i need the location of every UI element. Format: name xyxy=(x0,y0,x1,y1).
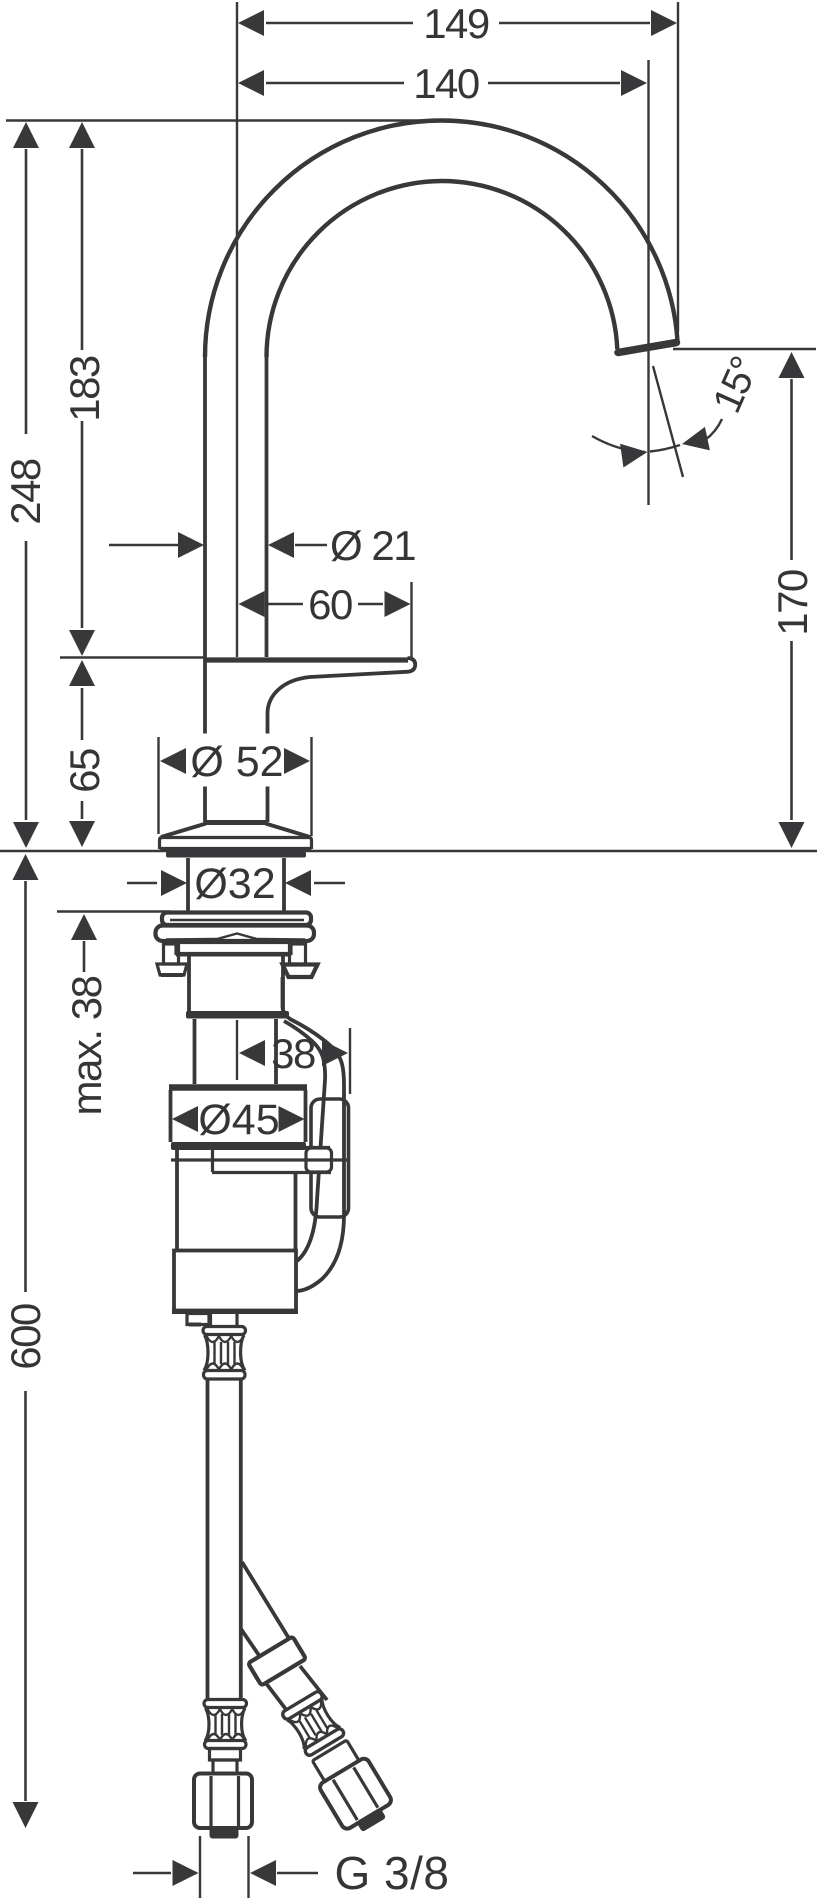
G38 thread stub xyxy=(210,1828,239,1839)
handle top edge xyxy=(204,657,408,662)
dimension d21 line left xyxy=(109,544,178,547)
dimension 170 arrow bottom xyxy=(779,822,805,848)
extension line handle tip xyxy=(410,582,412,660)
svg-text:248: 248 xyxy=(2,459,49,525)
dimension 140 arrow left xyxy=(238,70,264,96)
bracket bottom line xyxy=(212,1171,331,1174)
G38 nut xyxy=(194,1774,252,1829)
G38 nut facet lines xyxy=(209,1776,212,1826)
dimension d21 arrow right xyxy=(268,532,294,558)
angle 15 arc left tail xyxy=(592,436,645,452)
pipe right edge xyxy=(265,357,269,657)
seal bump line xyxy=(166,934,305,940)
diagonal crimp assembly xyxy=(276,1687,398,1839)
bracket shelf line xyxy=(171,1158,348,1161)
crimp1 bars xyxy=(215,1342,235,1364)
diagonal hose upper edge xyxy=(242,1562,293,1645)
dimension 170 label xyxy=(769,570,816,636)
dimension max38 arrow xyxy=(71,914,97,940)
angle 15 arc right tail xyxy=(705,419,722,440)
hose vertical right edge xyxy=(239,1380,243,1700)
crimp2 bottom band xyxy=(205,1741,247,1749)
washer plate xyxy=(162,913,311,926)
left mounting tab xyxy=(164,944,179,964)
body lower bottom edge xyxy=(172,1309,298,1314)
body upper bottom band xyxy=(171,1142,306,1150)
seal capsule xyxy=(156,926,315,942)
flexible hose inner edge xyxy=(284,1021,325,1261)
threaded shank xyxy=(186,858,190,911)
dimension d21 line right xyxy=(295,544,327,547)
base cone right slant xyxy=(266,824,311,838)
dimension 183 line xyxy=(81,149,84,350)
bracket top line xyxy=(212,1146,330,1149)
svg-text:Ø 21: Ø 21 xyxy=(330,522,415,569)
body lower box xyxy=(174,1251,296,1311)
svg-text:Ø32: Ø32 xyxy=(194,860,275,908)
crimp2 bottom scallops xyxy=(208,1734,245,1740)
svg-text:max. 38: max. 38 xyxy=(63,976,110,1115)
svg-text:60: 60 xyxy=(308,581,352,628)
pipe left edge xyxy=(203,357,207,734)
dimension 149 arrow left xyxy=(238,10,264,36)
dimension 38 arrow left xyxy=(239,1040,265,1066)
diagonal nut xyxy=(318,1757,393,1831)
dimension d52 arrow left xyxy=(160,748,186,774)
outlet tab xyxy=(187,1314,209,1325)
dimension 60 line xyxy=(266,603,303,606)
dimension d32 line right xyxy=(314,882,345,885)
crimp2 cage sides xyxy=(205,1708,246,1741)
extension line spout outer reach xyxy=(677,2,679,332)
dimension d32 arrow right xyxy=(285,870,311,896)
spout inner arc xyxy=(267,181,618,357)
datum line spout top xyxy=(6,119,452,122)
dimension d32 arrow left xyxy=(161,870,187,896)
dimension d32 line left xyxy=(127,882,157,885)
dimension 248 arrow top xyxy=(13,122,39,148)
bracket left edge xyxy=(211,1147,214,1172)
spout outer arc xyxy=(205,120,678,357)
left mounting foot xyxy=(157,964,187,975)
dimension max38 extension line xyxy=(57,910,170,912)
svg-text:65: 65 xyxy=(61,749,108,793)
diagonal braid segment xyxy=(262,1666,327,1712)
dimension 65 line xyxy=(81,688,84,740)
spout end face xyxy=(618,343,677,353)
base cone top edge xyxy=(204,820,267,825)
dimension G38 arrow left xyxy=(173,1860,199,1886)
svg-text:140: 140 xyxy=(413,60,479,107)
dimension d52 extension lines xyxy=(157,737,159,834)
angle 15 arrow onto slant line xyxy=(680,427,710,456)
mount tube bottom band xyxy=(186,1011,289,1019)
angle 15 arc middle xyxy=(650,445,680,452)
dimension 140 arrow right xyxy=(621,70,647,96)
body upper sides xyxy=(169,1090,173,1142)
outlet tab mark xyxy=(189,1323,201,1327)
svg-text:600: 600 xyxy=(2,1304,49,1370)
base cone left slant xyxy=(161,824,206,838)
svg-text:G 3/8: G 3/8 xyxy=(334,1847,449,1899)
diagonal hose collar xyxy=(248,1636,306,1685)
washer plate inner line xyxy=(170,919,304,921)
dimension 600 line xyxy=(24,881,27,1292)
crimp1 cage sides xyxy=(204,1335,245,1371)
body upper top band xyxy=(169,1084,307,1091)
dimension 170 line xyxy=(790,379,793,560)
handle lever outline xyxy=(268,658,416,822)
dimension 65 arrow top xyxy=(69,660,95,686)
dimension 60 arrow right xyxy=(385,591,411,617)
bracket cap xyxy=(306,1148,332,1172)
extension line handle plane xyxy=(60,656,204,658)
vertical connector band xyxy=(210,1749,241,1761)
dimension 183 arrow top xyxy=(69,122,95,148)
dimension d52 arrow right xyxy=(284,748,310,774)
left foot bottom mark xyxy=(161,973,183,977)
extension line spout outlet / 15 deg reference xyxy=(647,60,649,505)
vertical connector neck xyxy=(213,1760,237,1774)
angle 15 arrow onto vertical line xyxy=(620,440,649,467)
dimension 248 arrow bottom xyxy=(13,822,39,848)
dimension d45 arrow left xyxy=(172,1106,198,1132)
svg-text:183: 183 xyxy=(61,356,108,422)
svg-text:Ø45: Ø45 xyxy=(198,1096,279,1144)
diagonal thread stub xyxy=(356,1808,386,1833)
dimension 600 arrow top xyxy=(13,854,39,880)
svg-text:170: 170 xyxy=(769,570,816,636)
dimension max38 label xyxy=(63,976,110,1115)
body middle sides xyxy=(175,1150,179,1252)
crimp2 top band xyxy=(204,1700,247,1708)
flexible hose outer edge xyxy=(283,977,345,1291)
dimension 248 label xyxy=(2,459,49,525)
base seal ring xyxy=(166,852,306,858)
extension line faucet axis xyxy=(236,2,238,657)
base rim bottom edge xyxy=(160,847,312,850)
retainer block bottom edge xyxy=(176,953,291,957)
diagonal connector band xyxy=(312,1740,359,1781)
dimension G38 line left xyxy=(133,1872,171,1875)
dimension 60 arrow left xyxy=(239,591,265,617)
svg-text:149: 149 xyxy=(423,0,489,47)
countertop line xyxy=(0,850,817,853)
dimension 600 label xyxy=(2,1304,49,1370)
dimension 38 arrow right xyxy=(322,1040,348,1066)
dimension 183 label xyxy=(61,356,108,422)
diagonal hose lower edge xyxy=(241,1629,267,1667)
crimp1 bottom scallops xyxy=(207,1364,244,1370)
crimp1 bottom band xyxy=(204,1371,246,1380)
dimension G38 line right xyxy=(277,1872,318,1875)
dimension 149 arrow right xyxy=(651,10,677,36)
mount tube xyxy=(187,956,191,1012)
base rim xyxy=(160,838,312,850)
dimension 149 line xyxy=(266,22,413,25)
dimension 183 arrow bottom xyxy=(69,630,95,656)
angle 15 slant line xyxy=(653,366,683,477)
dimension 38 extension lines xyxy=(236,1020,238,1080)
crimp1 top scallops xyxy=(207,1336,244,1342)
crimp2 top scallops xyxy=(208,1709,245,1715)
right mounting tab xyxy=(290,944,306,964)
dimension max38 line xyxy=(83,941,86,972)
crimp2 bars xyxy=(216,1714,236,1735)
extension line spout tip level xyxy=(673,348,816,350)
svg-text:Ø 52: Ø 52 xyxy=(190,738,283,786)
connector neck xyxy=(209,1313,212,1327)
dimension 65 label xyxy=(61,749,108,793)
crimp1 top band xyxy=(203,1327,246,1335)
dimension G38 extension lines xyxy=(199,1836,201,1898)
dimension 600 arrow bottom xyxy=(13,1802,39,1828)
lower tube xyxy=(193,1019,197,1084)
hose nipple body xyxy=(283,965,318,978)
dimension 170 arrow top xyxy=(779,352,805,378)
dimension d45 arrow right xyxy=(279,1106,305,1132)
hose vertical left edge xyxy=(206,1380,210,1700)
dimension G38 arrow right xyxy=(250,1860,276,1886)
dimension d21 arrow left xyxy=(178,532,204,558)
hose sleeve xyxy=(311,1099,349,1217)
retainer block xyxy=(176,943,291,954)
dimension 140 line xyxy=(266,82,404,85)
dimension 248 line xyxy=(25,149,28,434)
dimension 65 arrow bottom xyxy=(69,821,95,847)
angle 15 label xyxy=(705,352,767,420)
